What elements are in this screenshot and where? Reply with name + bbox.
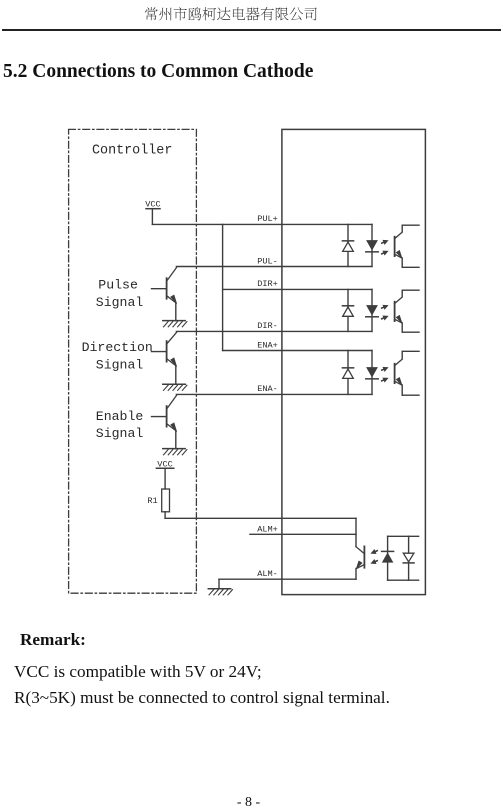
ground (direction emitter)	[163, 384, 187, 390]
optocoupler U4 LED + diode loop	[382, 536, 419, 580]
svg-text:PUL-: PUL-	[257, 257, 278, 267]
svg-text:R1: R1	[147, 496, 157, 506]
svg-text:Direction: Direction	[82, 340, 153, 355]
svg-text:DIR+: DIR+	[257, 279, 278, 289]
svg-text:Controller: Controller	[92, 144, 172, 159]
remark line 2	[14, 688, 390, 708]
svg-text:Signal: Signal	[96, 295, 144, 310]
svg-text:Signal: Signal	[96, 426, 144, 441]
wire PUL-	[176, 266, 372, 268]
transistor Q3 enable (NPN)	[152, 395, 178, 448]
header rule	[2, 29, 501, 31]
light arrows U2 (DIR)	[380, 303, 390, 322]
svg-text:DIR-: DIR-	[257, 321, 278, 331]
ground (pulse emitter)	[163, 321, 187, 327]
phototransistor U1 (PUL)	[395, 225, 419, 267]
phototransistor U4 (ALM), mirrored	[356, 518, 365, 579]
phototransistor U3 (ENA)	[395, 351, 419, 395]
svg-text:Signal: Signal	[96, 358, 144, 373]
controller dashed box	[69, 129, 197, 593]
optocoupler U2 (DIR): input diode + LED	[342, 289, 378, 331]
svg-text:ENA+: ENA+	[257, 341, 278, 351]
wire DIR+	[223, 288, 372, 290]
transistor Q1 pulse (NPN)	[152, 268, 178, 321]
svg-text:ENA-: ENA-	[257, 384, 278, 394]
optocoupler U1 (PUL): input diode + LED	[342, 224, 378, 266]
resistor R1	[162, 489, 170, 512]
page number	[0, 795, 500, 811]
wire R1 to opto ALM	[165, 512, 356, 519]
light arrows U1 (PUL)	[380, 238, 390, 257]
header company name	[0, 0, 503, 30]
wire ENA-	[176, 393, 372, 395]
light arrows ALM	[369, 548, 379, 566]
ground (ALM-)	[208, 589, 232, 595]
svg-text:ALM-: ALM-	[257, 569, 278, 579]
wire PUL+	[152, 223, 372, 225]
section title	[3, 61, 313, 83]
optocoupler U3 (ENA): input diode + LED	[342, 351, 378, 395]
VCC supply (top)	[145, 200, 160, 225]
remark line 1	[14, 662, 262, 682]
wire DIR-	[176, 330, 372, 332]
svg-text:Pulse: Pulse	[98, 278, 138, 293]
ground (enable emitter)	[163, 449, 187, 455]
svg-text:PUL+: PUL+	[257, 214, 278, 224]
remark heading	[20, 630, 86, 650]
phototransistor U2 (DIR)	[395, 290, 419, 332]
transistor Q2 direction (NPN)	[152, 332, 178, 384]
wire ALM- ground stem	[218, 579, 220, 589]
svg-text:Enable: Enable	[96, 409, 144, 424]
svg-text:ALM+: ALM+	[257, 525, 278, 535]
wire ALM-	[219, 578, 356, 580]
VCC distribution wire	[222, 224, 224, 350]
wire ALM+	[250, 533, 356, 535]
VCC supply (lower)	[156, 459, 173, 489]
light arrows U3 (ENA)	[380, 365, 390, 384]
wire ENA+	[223, 350, 372, 352]
driver solid box	[282, 129, 426, 594]
